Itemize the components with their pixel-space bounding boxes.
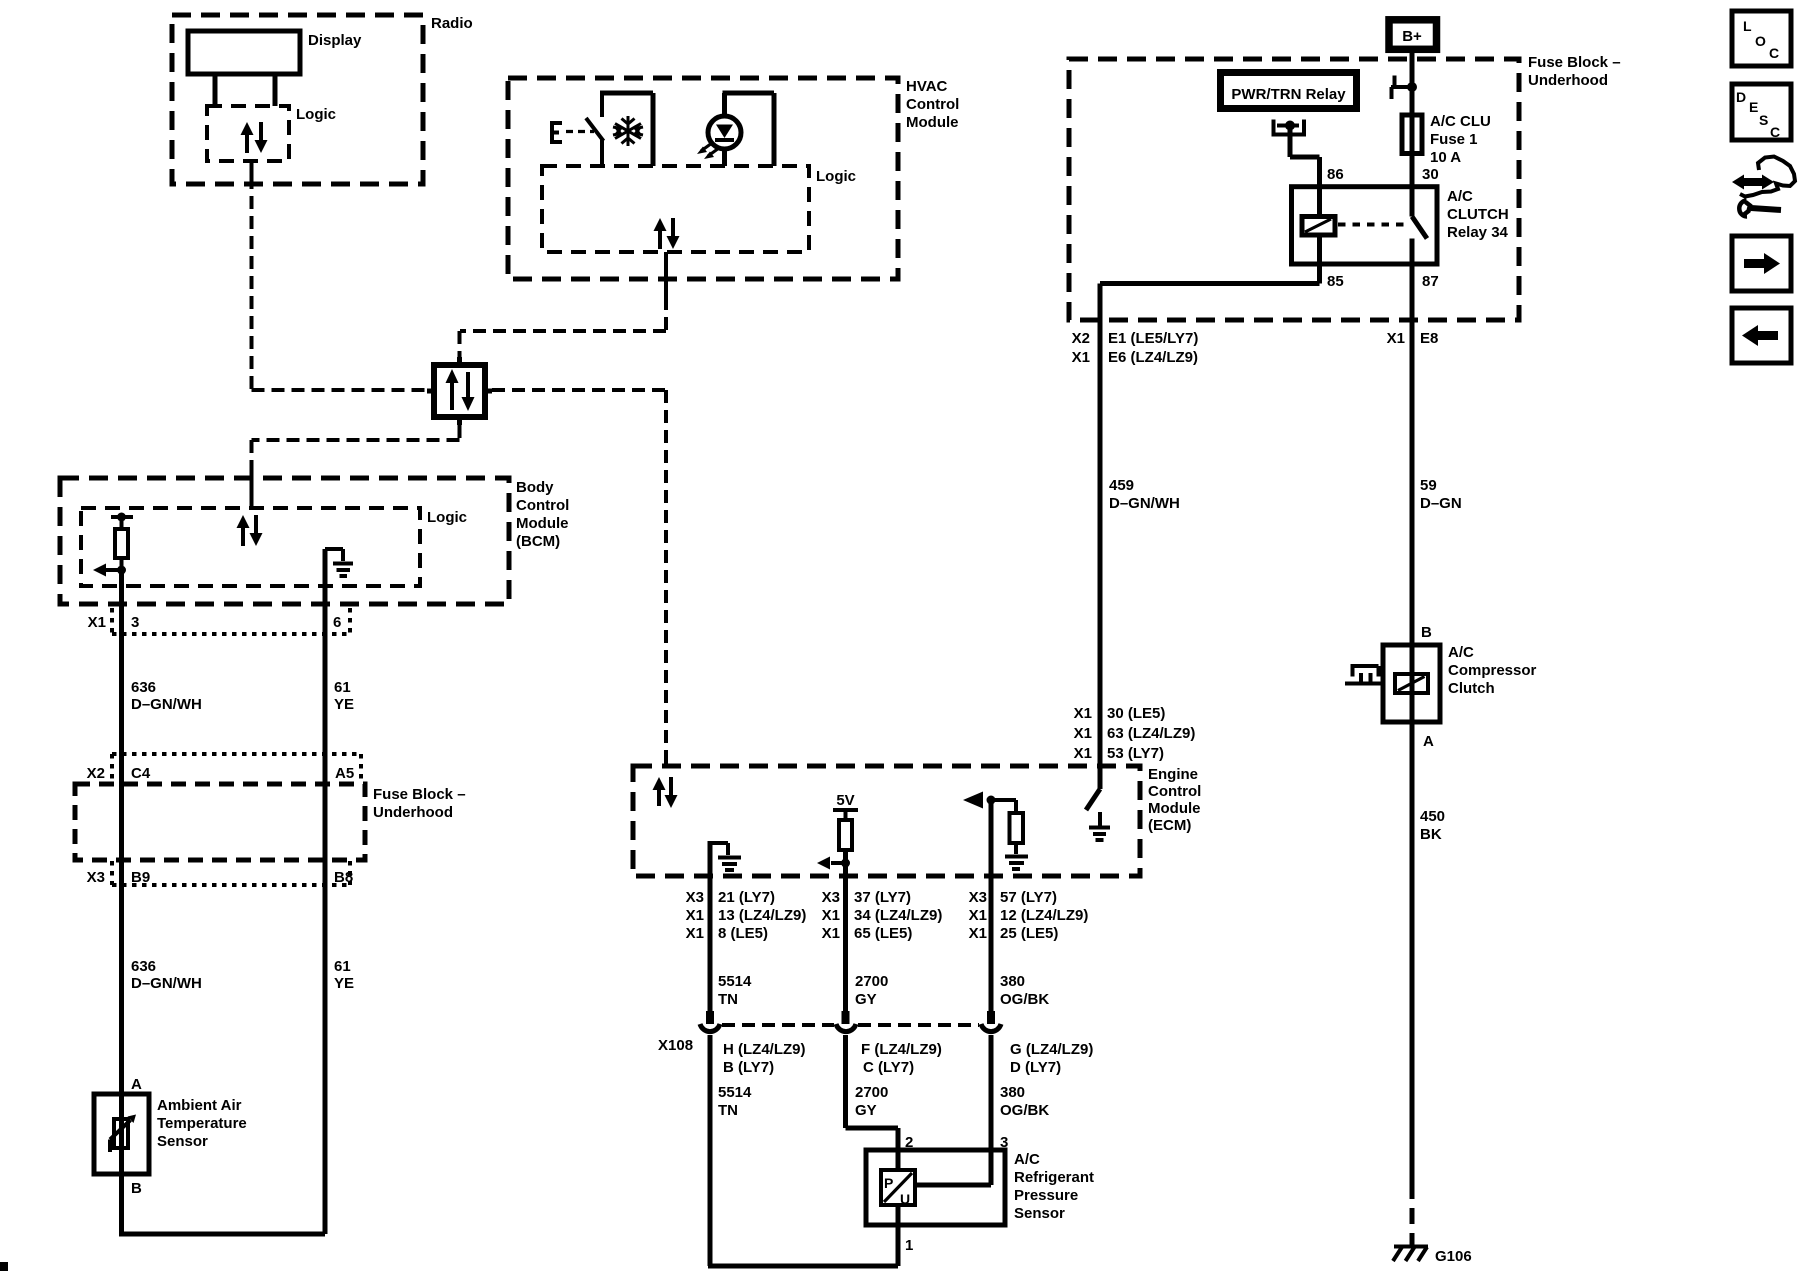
svg-text:34 (LZ4/LZ9): 34 (LZ4/LZ9) <box>854 907 942 924</box>
svg-text:450: 450 <box>1420 808 1445 825</box>
svg-text:D–GN/WH: D–GN/WH <box>131 975 202 992</box>
svg-text:P: P <box>884 1175 893 1191</box>
inline connector X108 <box>658 1024 1001 1054</box>
ground G106 <box>1393 1247 1472 1266</box>
icon forward arrow box <box>1732 236 1791 291</box>
svg-text:C (LY7): C (LY7) <box>863 1059 914 1076</box>
wire 61 YE from BCM pin 6 <box>323 549 328 1234</box>
svg-text:D–GN: D–GN <box>1420 495 1462 512</box>
svg-text:Module: Module <box>1148 800 1201 817</box>
svg-text:O: O <box>1755 33 1766 49</box>
svg-text:A/C: A/C <box>1014 1151 1040 1168</box>
svg-text:Module: Module <box>906 114 959 131</box>
fuse block underhood left connector X3 row <box>87 861 354 886</box>
svg-text:B: B <box>131 1180 142 1197</box>
svg-text:G (LZ4/LZ9): G (LZ4/LZ9) <box>1010 1041 1093 1058</box>
svg-text:Relay 34: Relay 34 <box>1447 224 1509 241</box>
svg-text:X1: X1 <box>1072 349 1090 366</box>
ECM pin row group 3 <box>969 889 1089 942</box>
wire 380 OG/BK lower <box>915 1035 1049 1185</box>
svg-text:Display: Display <box>308 32 362 49</box>
svg-text:10 A: 10 A <box>1430 149 1461 166</box>
svg-text:Ambient Air: Ambient Air <box>157 1097 242 1114</box>
svg-text:A: A <box>1423 733 1434 750</box>
label 61 YE lower <box>334 958 354 992</box>
svg-text:1: 1 <box>905 1237 913 1254</box>
BCM logic box <box>81 508 467 586</box>
ECM low reference ground <box>710 841 741 876</box>
svg-text:21 (LY7): 21 (LY7) <box>718 889 775 906</box>
svg-text:Underhood: Underhood <box>373 804 453 821</box>
svg-text:A/C: A/C <box>1447 188 1473 205</box>
svg-text:X3: X3 <box>87 869 105 886</box>
svg-text:B: B <box>1421 624 1432 641</box>
ECM pin row group 2 <box>822 889 943 942</box>
svg-text:L: L <box>1743 18 1752 34</box>
label 59 D-GN <box>1420 477 1462 512</box>
svg-text:Radio: Radio <box>431 15 473 32</box>
svg-text:C: C <box>1770 124 1780 140</box>
A/C clutch relay 34 box <box>1292 187 1509 264</box>
svg-text:Control: Control <box>1148 783 1201 800</box>
ECM sense resistor R3 with ground <box>963 792 1028 877</box>
svg-text:6: 6 <box>333 614 341 631</box>
svg-text:X1: X1 <box>969 907 987 924</box>
HVAC control module dashed box <box>508 78 959 279</box>
wire serial data radio to splice <box>252 161 428 390</box>
svg-text:380: 380 <box>1000 973 1025 990</box>
svg-text:A5: A5 <box>335 765 354 782</box>
svg-text:63 (LZ4/LZ9): 63 (LZ4/LZ9) <box>1107 725 1195 742</box>
svg-text:Logic: Logic <box>427 509 467 526</box>
label 636 D-GN/WH upper <box>131 679 202 713</box>
svg-text:X108: X108 <box>658 1037 693 1054</box>
wire 2700 GY upper <box>842 876 889 1024</box>
ECM dashed box <box>633 766 1201 876</box>
svg-text:X3: X3 <box>969 889 987 906</box>
icon wiring route and wrench <box>1732 157 1795 217</box>
svg-text:Control: Control <box>516 497 569 514</box>
wire serial data HVAC to splice <box>460 252 667 357</box>
svg-text:D–GN/WH: D–GN/WH <box>131 696 202 713</box>
wire relay 85 to ECM <box>1100 264 1320 766</box>
wire relay 87 to compressor clutch <box>1410 264 1415 645</box>
svg-text:61: 61 <box>334 679 351 696</box>
icon LOC box <box>1732 11 1791 66</box>
svg-text:2700: 2700 <box>855 973 888 990</box>
pin A label <box>131 1076 142 1093</box>
svg-text:X1: X1 <box>1074 725 1092 742</box>
svg-text:Sensor: Sensor <box>157 1133 208 1150</box>
A/C indicator LED <box>697 93 774 166</box>
svg-text:Sensor: Sensor <box>1014 1205 1065 1222</box>
ECM connector labels X1 30 63 53 <box>1074 705 1196 762</box>
svg-text:Compressor: Compressor <box>1448 662 1537 679</box>
svg-text:87: 87 <box>1422 273 1439 290</box>
svg-text:C: C <box>1769 45 1779 61</box>
svg-text:459: 459 <box>1109 477 1134 494</box>
svg-text:Refrigerant: Refrigerant <box>1014 1169 1094 1186</box>
thermistor symbol <box>110 1115 136 1153</box>
label 636 D-GN/WH lower <box>131 958 202 992</box>
svg-text:B9: B9 <box>131 869 150 886</box>
svg-text:PWR/TRN Relay: PWR/TRN Relay <box>1231 86 1346 103</box>
svg-text:X1: X1 <box>88 614 106 631</box>
svg-text:85: 85 <box>1327 273 1344 290</box>
mechanical linkage symbol <box>1345 666 1383 684</box>
svg-text:BK: BK <box>1420 826 1442 843</box>
A/C refrigerant pressure sensor box <box>866 1150 1094 1225</box>
label 61 YE upper <box>334 679 354 713</box>
B+ terminal symbol <box>1391 76 1417 100</box>
X108 pin letters <box>723 1041 1093 1076</box>
svg-text:OG/BK: OG/BK <box>1000 1102 1049 1119</box>
svg-text:86: 86 <box>1327 166 1344 183</box>
wire 5514 TN upper <box>706 876 752 1024</box>
svg-text:Fuse Block –: Fuse Block – <box>1528 54 1621 71</box>
svg-text:A: A <box>131 1076 142 1093</box>
svg-text:B (LY7): B (LY7) <box>723 1059 774 1076</box>
svg-text:636: 636 <box>131 679 156 696</box>
svg-text:G106: G106 <box>1435 1248 1472 1265</box>
svg-text:Temperature: Temperature <box>157 1115 247 1132</box>
wire 450 BK <box>1412 722 1445 1245</box>
BCM internal ground <box>325 549 353 576</box>
svg-text:CLUTCH: CLUTCH <box>1447 206 1509 223</box>
fuse block underhood left connector X2 row <box>87 754 361 782</box>
svg-text:Pressure: Pressure <box>1014 1187 1078 1204</box>
label 459 D-GN/WH <box>1109 477 1180 512</box>
pin 86 label <box>1327 166 1344 183</box>
display block <box>188 31 362 106</box>
svg-text:H (LZ4/LZ9): H (LZ4/LZ9) <box>723 1041 806 1058</box>
svg-text:E8: E8 <box>1420 330 1438 347</box>
svg-text:636: 636 <box>131 958 156 975</box>
svg-text:30: 30 <box>1422 166 1439 183</box>
svg-text:X1: X1 <box>1074 745 1092 762</box>
relay actuation dashed link <box>1338 223 1408 227</box>
pressure transducer P/U symbol <box>881 1170 915 1207</box>
svg-text:D–GN/WH: D–GN/WH <box>1109 495 1180 512</box>
wire serial data splice to ECM <box>492 390 666 766</box>
wire 5514 TN lower <box>710 1035 752 1266</box>
svg-text:53 (LY7): 53 (LY7) <box>1107 745 1164 762</box>
BCM connector X1 row <box>88 608 350 634</box>
svg-text:25 (LE5): 25 (LE5) <box>1000 925 1058 942</box>
svg-text:U: U <box>900 1191 910 1207</box>
fuse block underhood right dashed box <box>1069 54 1621 320</box>
svg-text:X1: X1 <box>822 907 840 924</box>
relay switch contacts <box>1412 187 1427 264</box>
B+ terminal box <box>1389 20 1437 50</box>
BCM pull-up resistor R1 <box>93 513 133 577</box>
svg-text:X1: X1 <box>1074 705 1092 722</box>
wire B+ feed <box>1410 53 1415 187</box>
svg-text:380: 380 <box>1000 1084 1025 1101</box>
pin 3 label <box>1000 1134 1008 1151</box>
svg-text:D: D <box>1736 89 1746 105</box>
pin B label <box>131 1180 142 1197</box>
svg-text:30 (LE5): 30 (LE5) <box>1107 705 1165 722</box>
svg-text:X1: X1 <box>686 925 704 942</box>
svg-text:E6 (LZ4/LZ9): E6 (LZ4/LZ9) <box>1108 349 1198 366</box>
relay coil feed terminal symbol <box>1272 120 1320 188</box>
svg-text:Body: Body <box>516 479 554 496</box>
svg-text:65 (LE5): 65 (LE5) <box>854 925 912 942</box>
svg-text:OG/BK: OG/BK <box>1000 991 1049 1008</box>
svg-text:X1: X1 <box>969 925 987 942</box>
wire 636 D-GN/WH from BCM pin 3 <box>119 570 124 1234</box>
radio logic box <box>207 106 336 161</box>
svg-text:B8: B8 <box>334 869 353 886</box>
wire pressure sensor pin 1 loop <box>708 1205 898 1266</box>
pin B label <box>1421 624 1432 641</box>
svg-text:HVAC: HVAC <box>906 78 948 95</box>
pin A label <box>1423 733 1434 750</box>
radio module dashed box <box>172 15 473 184</box>
pin 87 label <box>1422 273 1439 290</box>
ECM 5V supply and resistor R2 <box>817 792 858 876</box>
svg-text:(ECM): (ECM) <box>1148 817 1191 834</box>
fuse A/C CLU Fuse 1 10A <box>1402 113 1491 166</box>
icon DESC box <box>1732 84 1791 140</box>
svg-text:12 (LZ4/LZ9): 12 (LZ4/LZ9) <box>1000 907 1088 924</box>
svg-text:5514: 5514 <box>718 1084 752 1101</box>
svg-text:Underhood: Underhood <box>1528 72 1608 89</box>
wire serial data splice to BCM <box>252 425 460 508</box>
A/C compressor clutch box <box>1383 644 1537 722</box>
svg-text:E: E <box>1749 99 1758 115</box>
svg-text:X1: X1 <box>822 925 840 942</box>
svg-text:F (LZ4/LZ9): F (LZ4/LZ9) <box>861 1041 942 1058</box>
pin 30 label <box>1422 166 1439 183</box>
svg-text:2700: 2700 <box>855 1084 888 1101</box>
fuse block underhood left dashed box <box>75 784 466 860</box>
svg-text:57 (LY7): 57 (LY7) <box>1000 889 1057 906</box>
A/C request switch <box>551 93 653 166</box>
svg-text:(BCM): (BCM) <box>516 533 560 550</box>
pin 85 label <box>1327 273 1344 290</box>
svg-text:X1: X1 <box>1387 330 1405 347</box>
svg-text:Fuse 1: Fuse 1 <box>1430 131 1478 148</box>
svg-text:S: S <box>1759 112 1768 128</box>
wire 2700 GY lower <box>846 1035 899 1170</box>
svg-text:YE: YE <box>334 975 354 992</box>
svg-text:8 (LE5): 8 (LE5) <box>718 925 768 942</box>
svg-text:GY: GY <box>855 991 877 1008</box>
svg-text:X2: X2 <box>87 765 105 782</box>
snowflake icon <box>613 116 643 146</box>
svg-text:GY: GY <box>855 1102 877 1119</box>
svg-text:A/C: A/C <box>1448 644 1474 661</box>
svg-text:13 (LZ4/LZ9): 13 (LZ4/LZ9) <box>718 907 806 924</box>
svg-text:X3: X3 <box>686 889 704 906</box>
pin 1 label <box>905 1237 913 1254</box>
icon back arrow box <box>1732 308 1791 363</box>
PWR/TRN Relay label box <box>1221 73 1357 109</box>
wire 380 OG/BK upper <box>987 876 1049 1024</box>
svg-text:E1 (LE5/LY7): E1 (LE5/LY7) <box>1108 330 1198 347</box>
serial data splice box <box>427 357 492 425</box>
svg-text:C4: C4 <box>131 765 151 782</box>
svg-text:37 (LY7): 37 (LY7) <box>854 889 911 906</box>
svg-text:TN: TN <box>718 991 738 1008</box>
svg-text:X2: X2 <box>1072 330 1090 347</box>
svg-text:5514: 5514 <box>718 973 752 990</box>
svg-text:Logic: Logic <box>296 106 336 123</box>
pin 2 label <box>905 1134 913 1151</box>
svg-text:X3: X3 <box>822 889 840 906</box>
svg-text:Logic: Logic <box>816 168 856 185</box>
svg-text:59: 59 <box>1420 477 1437 494</box>
page corner mark <box>0 1262 8 1271</box>
svg-text:D (LY7): D (LY7) <box>1010 1059 1061 1076</box>
svg-text:Fuse Block –: Fuse Block – <box>373 786 466 803</box>
ECM pin row group 1 <box>686 889 807 942</box>
connector labels X1 E8 <box>1387 330 1439 347</box>
svg-text:5V: 5V <box>836 792 854 809</box>
ambient air temperature sensor box <box>94 1094 247 1174</box>
BCM dashed box <box>60 478 569 604</box>
relay coil <box>1302 187 1335 264</box>
HVAC logic box <box>542 166 856 252</box>
svg-text:X1: X1 <box>686 907 704 924</box>
svg-text:Engine: Engine <box>1148 766 1198 783</box>
svg-text:YE: YE <box>334 696 354 713</box>
ECM A/C relay control switch to ground <box>1086 766 1110 840</box>
svg-text:Clutch: Clutch <box>1448 680 1495 697</box>
svg-text:Control: Control <box>906 96 959 113</box>
svg-text:A/C CLU: A/C CLU <box>1430 113 1491 130</box>
svg-text:TN: TN <box>718 1102 738 1119</box>
svg-text:B+: B+ <box>1402 28 1422 45</box>
svg-text:Module: Module <box>516 515 569 532</box>
compressor clutch coil <box>1395 645 1428 722</box>
connector labels X2 E1 X1 E6 <box>1072 330 1199 366</box>
ECM serial data arrows <box>653 777 678 808</box>
wire sensor B loop to 61 YE <box>119 1232 325 1237</box>
svg-text:61: 61 <box>334 958 351 975</box>
svg-text:3: 3 <box>131 614 139 631</box>
